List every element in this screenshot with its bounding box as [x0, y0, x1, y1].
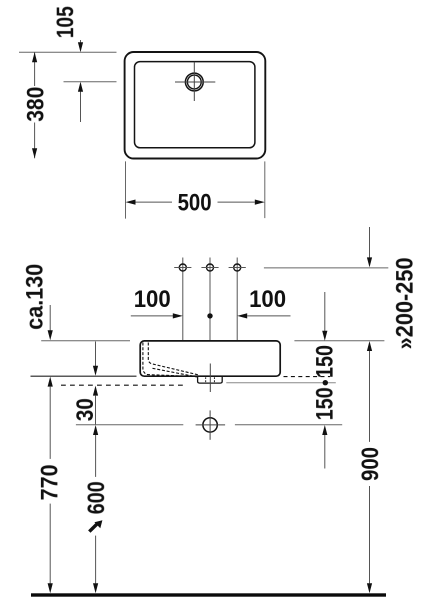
tap hole axis line left: [182, 258, 184, 341]
tap hole circle right: [229, 264, 246, 271]
svg-text:150: 150: [312, 387, 339, 420]
basin outer rim (plan view): [125, 52, 266, 159]
tap hole inner circle: [187, 75, 201, 89]
drain boss outline: [198, 376, 223, 383]
dimension 150 upper leader: [322, 292, 327, 341]
extension line tap hole axis: [64, 81, 117, 83]
svg-text:30: 30: [72, 398, 99, 421]
svg-text:150: 150: [312, 345, 339, 378]
dimension 100 left line: [131, 313, 183, 318]
extension line rim level left: [41, 340, 130, 342]
tap hole outer circle: [185, 73, 203, 91]
label 770: [36, 464, 63, 500]
label 100 right: [249, 286, 286, 313]
tap hole crosshair horizontal: [175, 81, 215, 83]
svg-text:105: 105: [52, 6, 79, 38]
overflow level line: [226, 382, 335, 384]
extension line basin bottom left: [31, 375, 137, 377]
drain pipe crosshair horizontal: [196, 424, 226, 426]
label ca.130: [22, 264, 49, 330]
hidden line basin bottom right: [284, 376, 331, 378]
dimension 770 line: [48, 377, 53, 594]
dimension ca.130 leader: [48, 305, 53, 340]
tap hole axis line centre: [209, 258, 211, 341]
dimension 30 lower leader: [93, 386, 98, 425]
extension line 500 left: [125, 161, 127, 218]
label 900: [357, 447, 384, 481]
dimension 150 lower leader: [322, 425, 327, 469]
hidden counter line: [61, 384, 183, 386]
basin interior hidden wall inner: [148, 343, 198, 375]
adjustable height arrow symbol: [89, 520, 102, 531]
extension line basin top edge: [19, 51, 117, 53]
svg-text:»200-250: »200-250: [392, 257, 419, 349]
basin body (front view): [140, 341, 280, 376]
basin centre line: [209, 364, 211, 393]
label 30: [72, 398, 99, 421]
label 600: [83, 481, 110, 514]
tap hole crosshair vertical: [193, 62, 195, 101]
dimension 900 line: [367, 341, 372, 593]
dimension 380 line: [32, 52, 37, 158]
label 150 upper: [312, 345, 339, 378]
dimension 100 right line: [237, 313, 290, 318]
extension line rim level right: [294, 340, 384, 342]
svg-text:770: 770: [36, 464, 63, 500]
dimension 105 lower leader: [78, 82, 83, 122]
label 105: [52, 6, 79, 38]
svg-text:100: 100: [134, 286, 171, 313]
extension line tap level right: [264, 267, 388, 269]
svg-text:600: 600: [83, 481, 110, 514]
label 150 lower: [312, 387, 339, 420]
extension line drain level right: [235, 424, 342, 426]
junction dot 150/150: [323, 380, 328, 385]
basin interior hidden wall outer: [143, 343, 197, 377]
svg-text:380: 380: [23, 87, 50, 122]
floor line: [31, 593, 386, 596]
drain pipe crosshair vertical: [209, 410, 211, 439]
svg-text:900: 900: [357, 447, 384, 481]
label 500: [178, 190, 212, 217]
tap hole axis line right: [236, 258, 238, 341]
drain pipe circle: [203, 418, 217, 432]
label 380: [23, 87, 50, 122]
basin inner rim (plan view): [135, 62, 255, 148]
dimension 500 line: [126, 200, 265, 205]
label 100 left: [134, 286, 171, 313]
dimension 200-250 leader: [367, 227, 372, 267]
dimension 600 line: [93, 425, 98, 593]
drain hidden lines: [206, 377, 215, 382]
svg-text:ca.130: ca.130: [22, 264, 49, 330]
dimension 105 upper leader: [78, 40, 83, 52]
tap hole circle left: [174, 264, 191, 271]
extension line drain level left: [76, 424, 183, 426]
label 200-250: [392, 257, 419, 349]
extension line 500 right: [264, 161, 266, 218]
tap hole circle centre: [201, 264, 218, 271]
dimension 30 upper leader: [93, 342, 98, 376]
junction dot 100/100: [207, 313, 212, 318]
svg-text:500: 500: [178, 190, 212, 217]
svg-text:100: 100: [249, 286, 286, 313]
basin interior hidden slope lower: [153, 368, 200, 377]
